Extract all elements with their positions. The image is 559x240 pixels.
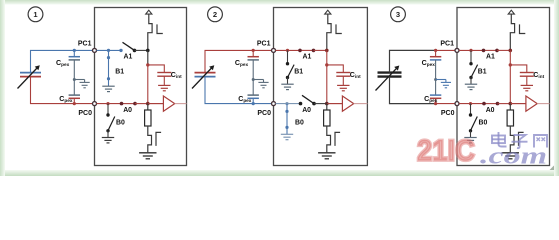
phase number circle 2 bbox=[208, 7, 223, 22]
ground at bottom of column panel 2 bbox=[318, 153, 335, 159]
svg-text:21IC: 21IC bbox=[417, 134, 475, 167]
transistor current sink M2 (bottom) panel 3 bbox=[510, 126, 523, 152]
wire PC0 port to switch A0 panel 3 bbox=[459, 103, 484, 105]
svg-text:B0: B0 bbox=[295, 119, 304, 126]
switch A1 panel 3 bbox=[482, 49, 499, 53]
transistor current source M1 (top) panel 3 bbox=[510, 14, 525, 38]
node Cpex midpoint panel 1 bbox=[73, 78, 76, 81]
ground at bottom of column panel 1 bbox=[139, 153, 156, 159]
wire op-amp output panel 1 bbox=[175, 103, 187, 105]
node Cint tap panel 2 bbox=[325, 63, 328, 66]
transistor current source M1 (top) panel 1 bbox=[148, 14, 163, 38]
IC boundary box panel 3 bbox=[457, 8, 550, 166]
switch A0 panel 2 bbox=[299, 95, 316, 105]
svg-text:3: 3 bbox=[396, 10, 400, 19]
switch A1 panel 1 bbox=[119, 42, 136, 52]
supply arrow (VDD) panel 3 bbox=[508, 10, 514, 14]
switch B1 panel 1 bbox=[107, 50, 110, 86]
node Cint tap panel 1 bbox=[146, 63, 149, 66]
svg-text:.com: .com bbox=[480, 143, 547, 170]
sensor capacitor Cs (variable) panel 3 bbox=[376, 66, 402, 91]
capacitor Cpex top panel 2 bbox=[248, 49, 259, 80]
capacitor Cint panel 2 bbox=[327, 65, 351, 85]
capacitor Cpex top panel 3 bbox=[430, 49, 441, 80]
watermark CJK char zi bbox=[512, 135, 528, 148]
wire op-amp output panel 2 bbox=[354, 103, 368, 105]
svg-text:A0: A0 bbox=[302, 107, 311, 114]
op-amp comparator panel 2 bbox=[327, 96, 354, 111]
node PC0 port panel 1 bbox=[93, 102, 97, 106]
svg-text:PC1: PC1 bbox=[78, 41, 92, 48]
capacitor Cint panel 3 bbox=[510, 65, 534, 85]
svg-text:A0: A0 bbox=[486, 107, 495, 114]
node Cpex midpoint panel 3 bbox=[434, 78, 437, 81]
resistor R panel 3 bbox=[507, 104, 513, 126]
ground below Cint panel 3 bbox=[521, 85, 533, 90]
ground below B0 panel 3 bbox=[464, 138, 476, 143]
wire M1 drain to PC1 junction panel 3 bbox=[509, 38, 511, 50]
svg-text:A1: A1 bbox=[124, 54, 133, 61]
resistor R panel 2 bbox=[324, 104, 330, 126]
capacitor Cpex bottom panel 2 bbox=[248, 80, 259, 106]
ground below Cint panel 2 bbox=[337, 85, 349, 90]
wire column PC1 to PC0 (active) panel 3 bbox=[509, 50, 511, 103]
decorative green frame bbox=[0, 0, 559, 5]
wire PC1 port to switch A1 panel 2 bbox=[276, 49, 301, 51]
wire Cpex tap to PC0 port (active) panel 3 bbox=[436, 103, 457, 105]
supply arrow (VDD) panel 2 bbox=[325, 10, 331, 14]
svg-text:B1: B1 bbox=[478, 68, 487, 75]
svg-text:2: 2 bbox=[213, 10, 217, 19]
ground below B1 panel 1 bbox=[102, 86, 114, 91]
sensor capacitor Cs (variable) panel 1 bbox=[18, 65, 42, 88]
node Cint tap panel 3 bbox=[509, 63, 512, 66]
transistor current sink M2 (bottom) panel 2 bbox=[327, 126, 340, 152]
ground below Cint panel 1 bbox=[158, 85, 170, 90]
wire Cpex tap to PC1 port (active) panel 3 bbox=[436, 49, 457, 51]
switch A0 panel 1 bbox=[120, 102, 137, 106]
resistor R panel 1 bbox=[145, 104, 151, 126]
capacitor Cpex bottom panel 3 bbox=[430, 80, 441, 106]
wire switch A1 to integrator column panel 2 bbox=[314, 49, 327, 51]
wire sensor bottom plate to PC0 port panel 1 bbox=[31, 77, 95, 104]
svg-text:A0: A0 bbox=[123, 107, 132, 114]
wire sensor bottom plate to PC0 port panel 2 bbox=[205, 77, 274, 104]
switch B0 panel 1 bbox=[106, 104, 115, 138]
wire column Cint tap to PC0 (active) panel 1 bbox=[147, 65, 149, 104]
watermark corner diamond bbox=[549, 166, 558, 176]
wire PC0 port to switch A0 panel 1 bbox=[97, 103, 122, 105]
ground at bottom of column panel 3 bbox=[502, 153, 519, 159]
switch A0 panel 3 bbox=[482, 102, 499, 106]
node PC1 port panel 1 bbox=[93, 48, 97, 52]
ground at Cpex midpoint panel 2 bbox=[253, 80, 268, 88]
wire switch A1 to integrator column panel 3 bbox=[497, 49, 510, 51]
capacitor Cint panel 1 bbox=[148, 65, 172, 85]
switch B1 panel 2 bbox=[286, 50, 294, 84]
wire switch A0 to integrator column panel 3 bbox=[498, 103, 511, 105]
svg-text:A1: A1 bbox=[303, 54, 312, 61]
node column/PC1 junction panel 2 bbox=[325, 49, 329, 53]
wire switch A0 to integrator column panel 2 bbox=[314, 103, 327, 105]
wire sensor top plate to PC1 port panel 1 bbox=[31, 50, 95, 72]
switch A1 panel 2 bbox=[298, 49, 315, 53]
node Cpex midpoint panel 2 bbox=[252, 78, 255, 81]
wire PC0 port to switch A0 panel 2 bbox=[276, 103, 301, 105]
node column/PC0 junction panel 3 bbox=[509, 102, 513, 106]
switch B1 panel 3 bbox=[469, 50, 477, 84]
svg-text:PC1: PC1 bbox=[440, 41, 454, 48]
svg-text:B1: B1 bbox=[294, 68, 303, 75]
svg-text:PC0: PC0 bbox=[257, 110, 271, 117]
wire column PC1 to PC0 (active) panel 2 bbox=[326, 50, 328, 103]
svg-text:PC1: PC1 bbox=[257, 41, 271, 48]
wire PC1 port to switch A1 panel 3 bbox=[459, 49, 484, 51]
node PC0 port panel 2 bbox=[272, 102, 276, 106]
ground below B1 panel 2 bbox=[281, 84, 293, 89]
wire sensor bottom plate to Cpex tap (inactive) panel 3 bbox=[390, 77, 436, 104]
wire op-amp output panel 3 bbox=[537, 103, 549, 105]
op-amp comparator panel 3 bbox=[510, 96, 537, 111]
node PC1 port panel 3 bbox=[455, 48, 459, 52]
node column/PC1 junction panel 1 bbox=[146, 49, 150, 53]
supply arrow (VDD) panel 1 bbox=[146, 10, 152, 14]
wire sensor top plate to PC1 port panel 2 bbox=[205, 50, 274, 72]
svg-text:A1: A1 bbox=[486, 54, 495, 61]
phase number circle 1 bbox=[28, 7, 43, 22]
transistor current source M1 (top) panel 2 bbox=[327, 14, 342, 38]
wire column PC1 to Cint tap (inactive) panel 1 bbox=[147, 50, 149, 65]
wire PC1 port to switch A1 panel 1 bbox=[97, 49, 122, 51]
svg-text:B0: B0 bbox=[479, 119, 488, 126]
node column/PC0 junction panel 1 bbox=[146, 102, 150, 106]
transistor current sink M2 (bottom) panel 1 bbox=[148, 126, 161, 152]
svg-text:PC0: PC0 bbox=[441, 110, 455, 117]
svg-text:B1: B1 bbox=[115, 68, 124, 75]
node column/PC0 junction panel 2 bbox=[325, 102, 329, 106]
IC boundary box panel 1 bbox=[95, 8, 187, 166]
ground below B0 panel 1 bbox=[102, 138, 114, 143]
sensor capacitor Cs (variable) panel 2 bbox=[192, 65, 216, 88]
wire switch A1 to integrator column panel 1 bbox=[135, 49, 148, 51]
phase number circle 3 bbox=[391, 7, 406, 22]
wire M1 drain to PC1 junction panel 2 bbox=[326, 38, 328, 50]
switch B0 panel 3 bbox=[469, 104, 478, 138]
ground below B1 panel 3 bbox=[465, 84, 477, 89]
capacitor Cpex top panel 1 bbox=[69, 49, 80, 80]
watermark CJK char dian bbox=[492, 132, 507, 147]
IC boundary box panel 2 bbox=[274, 8, 368, 166]
ground below B0 panel 2 bbox=[281, 134, 293, 139]
node column/PC1 junction panel 3 bbox=[509, 49, 513, 53]
wire M1 drain to PC1 junction panel 1 bbox=[147, 38, 149, 50]
svg-text:PC0: PC0 bbox=[78, 110, 92, 117]
capacitor Cpex bottom panel 1 bbox=[69, 80, 80, 106]
ground at Cpex midpoint panel 1 bbox=[74, 80, 89, 88]
switch B0 panel 2 bbox=[285, 104, 288, 134]
wire switch A0 to integrator column panel 1 bbox=[135, 103, 148, 105]
ground at Cpex midpoint panel 3 bbox=[436, 80, 451, 88]
watermark CJK char wang bbox=[534, 135, 547, 148]
op-amp comparator panel 1 bbox=[148, 96, 175, 111]
wire sensor top plate to Cpex tap (inactive) panel 3 bbox=[390, 50, 436, 72]
node PC1 port panel 2 bbox=[272, 48, 276, 52]
node PC0 port panel 3 bbox=[455, 102, 459, 106]
svg-text:B0: B0 bbox=[116, 119, 125, 126]
